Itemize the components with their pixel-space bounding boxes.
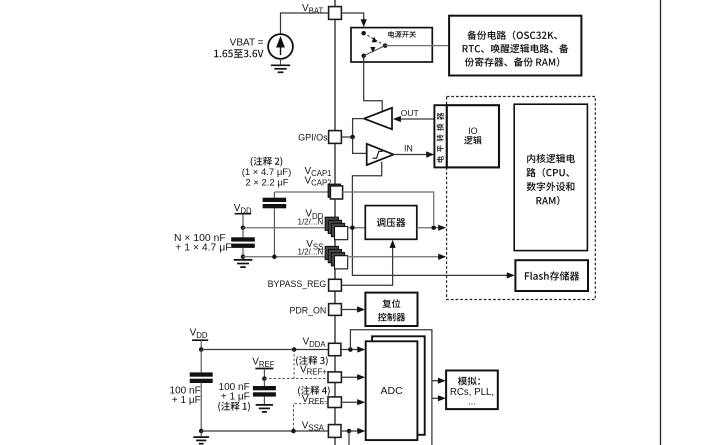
backup circuit block (OSC32K, RTC, wakeup logic, backup registers, backup RAM) [449, 16, 581, 76]
wire VSSA junction down [348, 431, 350, 445]
pin BYPASS_REG [329, 279, 342, 291]
svg-text:OUT: OUT [401, 108, 419, 118]
wire VSSA pin to ADC [341, 430, 359, 432]
wire VDD to VDDA pin [201, 349, 328, 351]
note labels for VCAP caps [251, 157, 283, 167]
buffer GPIO input Schmitt trigger [367, 144, 394, 165]
svg-text:GPI/Os: GPI/Os [298, 132, 328, 142]
node VSSA junction [347, 429, 352, 434]
wire VDD net to VDD pins [243, 227, 328, 229]
svg-text:...: ... [468, 397, 476, 408]
svg-text:(1 × 4.7 μF): (1 × 4.7 μF) [242, 167, 292, 178]
wire output buffer apex to GPIO node [353, 119, 364, 137]
node 2.2uF cap bottom on VSS net [272, 255, 277, 260]
node VDD junction to Schmitt/Flash branch [350, 225, 355, 230]
capacitor N x 100nF + 1 x 4.7uF on VDD [242, 228, 244, 238]
pin VCAP1/VCAP2 (stacked x2) [328, 184, 340, 197]
wire VDDA around ADC to analog blocks [350, 330, 432, 445]
svg-text:VBAT =: VBAT = [230, 37, 264, 48]
node VREF- / VSSA junction [291, 429, 296, 434]
wire Schmitt trigger supply from VDD net [352, 162, 381, 228]
switch dashed throw to VBAT contact [364, 33, 386, 45]
wire VCAP cap to VCAP pin [274, 191, 328, 193]
capacitor 100nF + 1uF on VREF (note 1) [263, 379, 265, 386]
wire VDDA to analog block (upper) [432, 380, 440, 382]
power switch box [351, 28, 432, 62]
label (注释 3) [296, 356, 328, 366]
node VDDA stub junction [199, 347, 204, 352]
wire IN from Schmitt trigger to level shifter [394, 154, 428, 156]
svg-text:IN: IN [404, 143, 413, 153]
wire VDDA to analog block (lower) [432, 397, 440, 399]
dashed wire VREF- to VSSA net [294, 404, 329, 431]
dashed wire VREF cap to VREF+ pin [264, 378, 328, 380]
node VDDA wrap junction [348, 347, 353, 352]
regulator block (调压器) [365, 206, 417, 240]
dashed wire VDDA to VREF+ [293, 350, 295, 379]
svg-text:+ 1 μF: + 1 μF [172, 395, 201, 406]
pin VBAT [329, 7, 342, 20]
IO logic block [447, 105, 499, 167]
wire VDD stub down to VDD net [242, 214, 244, 228]
pin VSSA [328, 425, 341, 438]
ground below analog cap [200, 431, 202, 437]
svg-text:PDR_ON: PDR_ON [290, 305, 327, 315]
node regulator output / VCAP junction [431, 225, 436, 230]
wire PDR_ON to reset controller [341, 309, 358, 311]
ground below VREF cap [256, 404, 273, 406]
core logic block (CPU, digital peripherals, RAM) [514, 104, 587, 250]
Flash memory block [515, 260, 588, 291]
wire VDDA pin to ADC [341, 349, 359, 351]
wire VDD pins to regulator input [347, 227, 365, 229]
ground below VDD cap [242, 257, 244, 260]
pin VREF+ [328, 372, 341, 383]
label 电源开关 (power switch) [388, 31, 416, 38]
buffer GPIO output driver [364, 108, 392, 130]
wire regulator output to core domain [417, 227, 439, 229]
node analog ground junction [199, 429, 204, 434]
node VREF cap top [262, 376, 267, 381]
svg-text:+ 1 μF: + 1 μF [221, 392, 250, 403]
wire VREF+ pin to ADC [341, 376, 359, 378]
pin GPI/Os [329, 131, 342, 144]
capacitor 2 x 2.2uF on VCAP [273, 192, 275, 198]
svg-text:BYPASS_REG: BYPASS_REG [268, 279, 327, 289]
svg-text:IO: IO [468, 126, 478, 136]
wire VSS net to VSS pins [243, 256, 328, 258]
pin VSS_1/2/...N (stacked) [325, 246, 348, 269]
svg-text:1/2/...N: 1/2/...N [298, 248, 324, 257]
wire VCAP pin to regulator output node [342, 192, 434, 225]
wire VREF- pin to ADC [341, 401, 359, 403]
wire VBAT pin to power switch [341, 13, 363, 22]
wire VSS pins to core domain [347, 256, 438, 258]
wire GPIO pin to junction [341, 136, 352, 138]
pin VREF- [328, 397, 341, 408]
node VDDA dashed branch junction [292, 347, 297, 352]
wire OUT from level shifter to output buffer [401, 118, 435, 120]
level shifter box (电平转换器) [434, 105, 446, 167]
ADC block (stacked) [372, 336, 425, 435]
wire VDD to Flash memory [352, 228, 507, 276]
analog block (RCs, PLL, ...) [446, 371, 498, 410]
svg-text:1/2/...N: 1/2/...N [298, 218, 324, 227]
switch solid throw to bottom contact [364, 46, 386, 56]
dashed box: regulator 1.2V core domain [447, 97, 596, 300]
switch contact node top (from VBAT) [361, 31, 366, 36]
pin VDDA [329, 343, 341, 355]
wire BYPASS_REG to regulator [341, 244, 392, 285]
ground below VBAT source [280, 59, 282, 65]
wire VBAT source to VBAT pin [281, 13, 330, 34]
wire switch output to backup circuit [385, 45, 449, 47]
wire VSSA net [201, 430, 328, 432]
svg-text:2 × 2.2 μF: 2 × 2.2 μF [245, 178, 288, 189]
svg-text:+ 1 × 4.7 μF: + 1 × 4.7 μF [175, 242, 231, 253]
voltage source VBAT (1.65 to 3.6V) [268, 34, 293, 59]
page border line [660, 0, 662, 445]
node VSS/ground junction [241, 255, 246, 260]
node GPIO junction [350, 135, 355, 140]
wire switch bottom contact to GPIO OUT buffer supply [364, 56, 383, 113]
pin PDR_ON [329, 304, 342, 316]
node VDD cap junction [241, 225, 246, 230]
svg-text:ADC: ADC [381, 385, 404, 397]
reset controller block (复位控制器) [365, 293, 417, 326]
switch common node [383, 43, 388, 48]
label (注释 4) [298, 386, 330, 396]
switch contact node bottom (to output) [361, 54, 366, 59]
pin VDD_1/2/...N (stacked) [325, 217, 348, 240]
wire GPIO node to input Schmitt trigger [353, 137, 367, 153]
wire MCU pin rail (vertical, x=335) [334, 0, 336, 445]
capacitor 100nF + 1uF on VDDA [200, 350, 202, 373]
